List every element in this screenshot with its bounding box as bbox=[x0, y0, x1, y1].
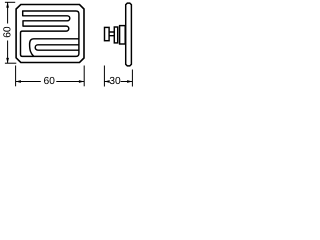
heating element serpentine groove (main loop) bbox=[21, 11, 79, 56]
depth dimension extension line right bbox=[131, 70, 133, 87]
left dimension arrow down bbox=[6, 58, 9, 63]
depth dimension line bbox=[104, 81, 132, 83]
bottom dimension arrow right bbox=[79, 80, 84, 83]
left vertical dimension line bbox=[7, 2, 9, 63]
terminal stud neck bbox=[109, 32, 114, 36]
label 30 bbox=[110, 77, 115, 84]
left dimension extension line bottom bbox=[5, 62, 16, 64]
label 60 (vertical) bbox=[3, 27, 10, 37]
bottom dimension extension line left bbox=[15, 66, 17, 87]
background bbox=[0, 0, 139, 102]
terminal stud base block bbox=[120, 26, 126, 44]
depth dimension extension line left bbox=[103, 66, 105, 87]
bottom horizontal dimension line bbox=[16, 81, 85, 83]
serpentine lower hairpin outer curve bbox=[30, 39, 79, 57]
serpentine lower hairpin inner island bbox=[35, 45, 79, 50]
left dimension arrow up bbox=[6, 2, 9, 7]
label 60 (bottom) bbox=[44, 77, 49, 84]
left dimension extension line top bbox=[5, 1, 15, 3]
depth dimension arrow right bbox=[127, 80, 132, 83]
heater panel front view outline bbox=[16, 5, 84, 63]
terminal stud middle block bbox=[114, 27, 117, 43]
bottom dimension arrow left bbox=[16, 80, 21, 83]
terminal stud tip block bbox=[105, 27, 110, 40]
side view panel profile bbox=[126, 3, 132, 66]
depth dimension arrow left bbox=[104, 80, 109, 83]
bottom dimension extension line right bbox=[83, 66, 85, 87]
